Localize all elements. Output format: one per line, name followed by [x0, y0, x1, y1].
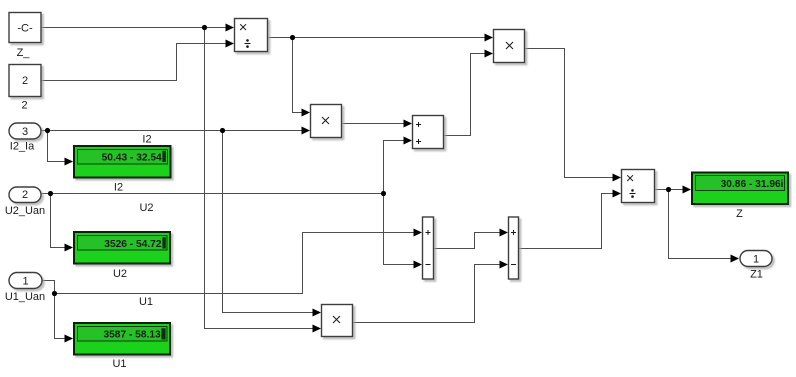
svg-text:I2: I2	[142, 134, 151, 146]
svg-text:Z_: Z_	[17, 47, 31, 59]
svg-text:-C-: -C-	[17, 23, 33, 35]
svg-text:2: 2	[22, 189, 28, 201]
svg-text:3587 - 58.13: 3587 - 58.13	[103, 330, 161, 341]
svg-text:1: 1	[753, 254, 759, 266]
svg-text:U1_Uan: U1_Uan	[5, 291, 45, 303]
svg-text:I2_Ia: I2_Ia	[10, 141, 35, 153]
svg-text:U1: U1	[112, 358, 126, 370]
svg-text:U2: U2	[113, 268, 127, 280]
svg-text:Z: Z	[736, 208, 743, 220]
svg-text:Z1: Z1	[750, 269, 763, 281]
svg-text:3526 - 54.72: 3526 - 54.72	[104, 239, 162, 250]
svg-text:2: 2	[21, 100, 27, 112]
svg-text:50.43 - 32.54: 50.43 - 32.54	[102, 153, 162, 164]
svg-text:U2: U2	[139, 202, 153, 214]
svg-text:1: 1	[22, 276, 28, 288]
svg-text:30.86 - 31.96i: 30.86 - 31.96i	[721, 179, 784, 190]
svg-text:2: 2	[22, 75, 28, 87]
svg-text:I2: I2	[114, 182, 123, 194]
svg-text:3: 3	[22, 126, 28, 138]
svg-text:U2_Uan: U2_Uan	[5, 205, 45, 217]
svg-text:U1: U1	[139, 296, 153, 308]
